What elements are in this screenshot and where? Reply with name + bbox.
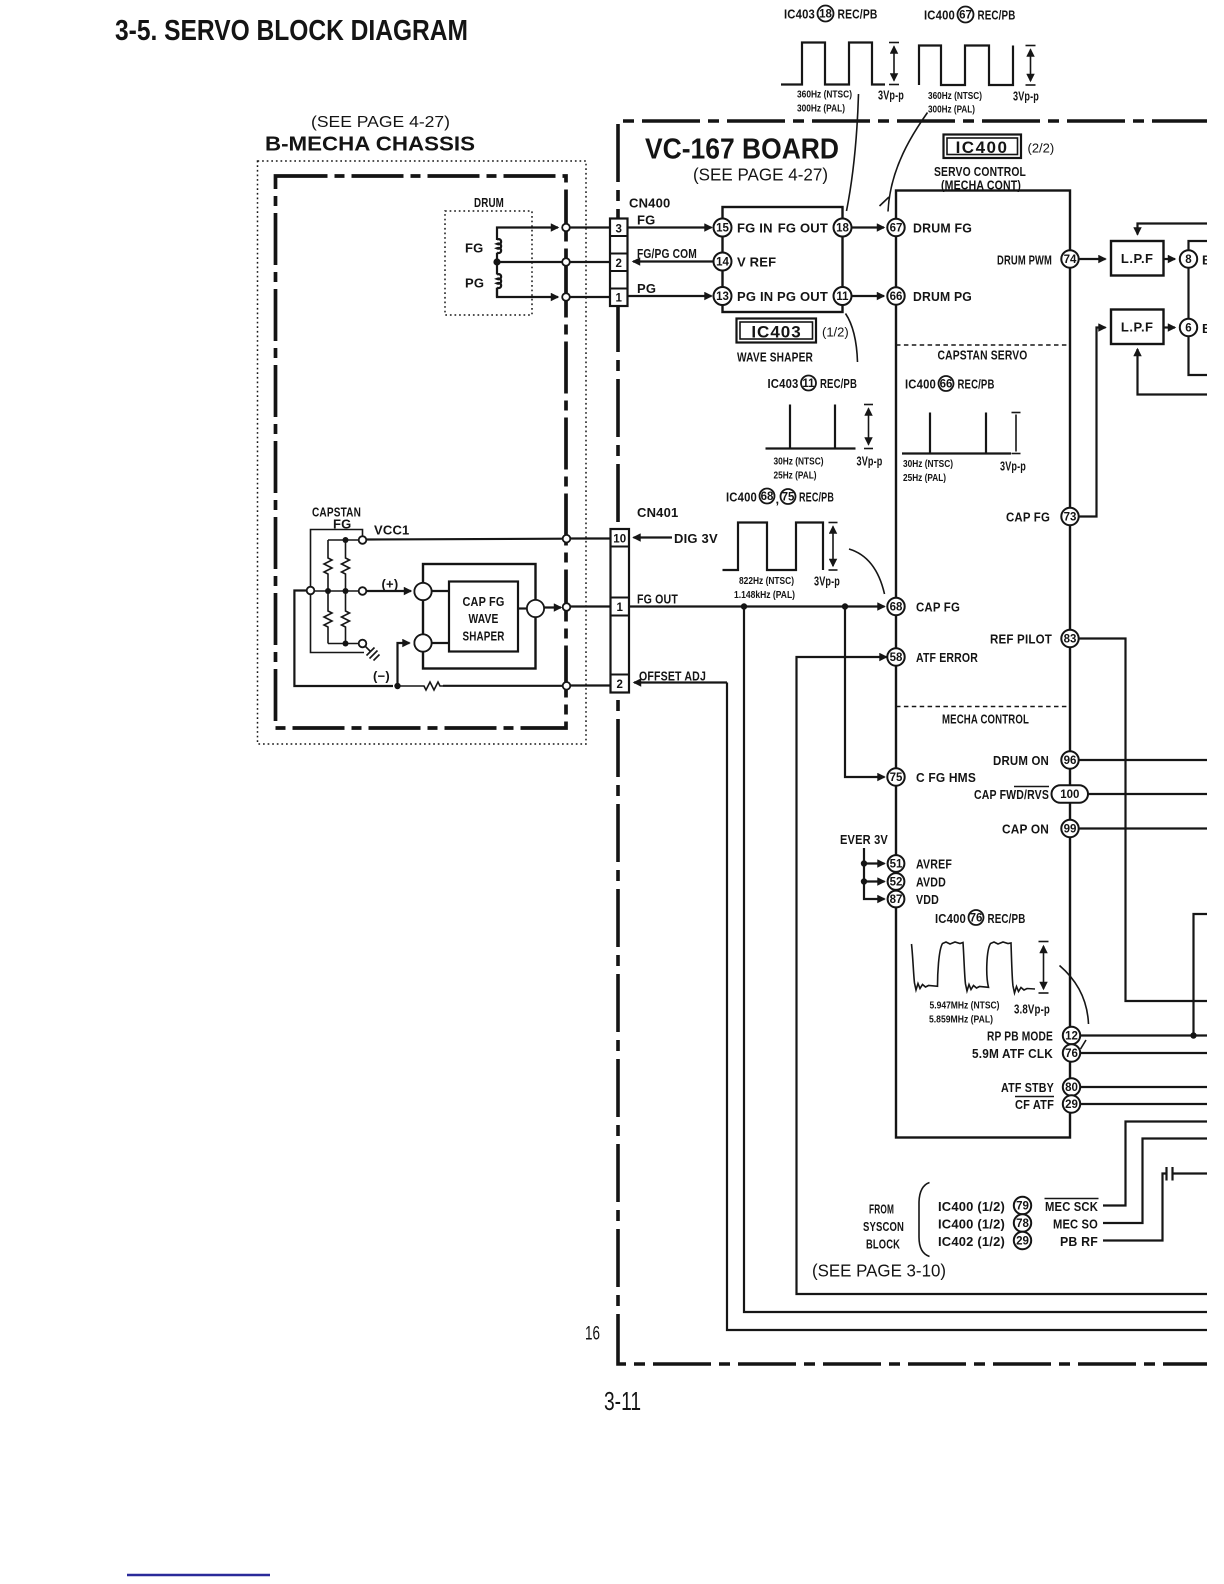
svg-text:FG: FG [637,213,655,228]
terminal capstan plus [359,587,367,595]
node circle 6 [1180,319,1197,336]
node bottom rail [328,643,359,645]
IC403 pin 11 [834,287,852,305]
node 79 [1014,1197,1031,1214]
svg-text:3Vp-p: 3Vp-p [814,574,840,589]
IC400 reference designator box [944,135,1022,159]
svg-text:99: 99 [1064,824,1077,836]
svg-text:14: 14 [716,257,729,269]
resistor R lower-left [324,591,332,644]
svg-text:EVER 3V: EVER 3V [840,832,888,847]
wire drum common to chassis terminal [497,261,562,263]
IC400 pin 58 [887,648,904,665]
svg-text:3.8Vp-p: 3.8Vp-p [1014,1002,1050,1017]
low pass filter LPF1 [1111,241,1164,276]
square waveform 360Hz at IC400 pin67 [919,46,1013,86]
svg-text:FG OUT: FG OUT [637,592,678,607]
junction dot minus node [394,683,400,689]
IC400 pin 74 [1061,250,1078,267]
svg-text:(2/2): (2/2) [1028,141,1055,156]
svg-text:CF ATF: CF ATF [1015,1097,1054,1112]
wire OFFSET ADJ into CN401 pin2 [634,681,727,683]
svg-text:VCC1: VCC1 [374,523,409,538]
IC403 pin 15 [714,219,732,237]
wire corner feed to pin12 bus [1194,914,1208,1036]
wire CAP ON pin99 exit [1079,827,1207,829]
wire EVER 3V rail [864,848,885,899]
IC400 pin 12 [1063,1027,1080,1044]
svg-text:3-5. SERVO BLOCK DIAGRAM: 3-5. SERVO BLOCK DIAGRAM [115,15,468,47]
leader tick at pin67 [880,197,890,206]
node 29 [1014,1232,1031,1249]
wire CAP FG pin73 to LPF2 [1079,328,1106,517]
svg-text:12: 12 [1065,1031,1078,1043]
MECHA CONTROL section separator [896,706,1070,708]
svg-text:IC400: IC400 [924,8,955,23]
svg-text:FG/PG COM: FG/PG COM [637,246,697,261]
leader curve waveform to pin12 [1060,966,1089,1025]
svg-text:CN400: CN400 [629,196,670,211]
B-MECHA chassis inner dash-dot border [276,176,567,728]
svg-text:75: 75 [890,772,903,784]
svg-text:BLOCK: BLOCK [866,1237,900,1252]
chassis terminal FG OUT [563,603,571,611]
svg-text:DIG 3V: DIG 3V [674,531,718,546]
wire MEC SO exit [1103,1139,1207,1224]
svg-text:DRUM PG: DRUM PG [913,289,972,304]
svg-text:25Hz (PAL): 25Hz (PAL) [903,472,946,484]
svg-text:80: 80 [1065,1082,1078,1094]
svg-text:WAVE: WAVE [469,611,499,626]
svg-text:1: 1 [616,602,623,614]
connector CN400 [610,219,628,307]
svg-text:FROM: FROM [869,1202,894,1217]
svg-text:68: 68 [890,602,903,614]
svg-text:13: 13 [716,291,729,303]
resistor R lower-right [342,591,350,644]
wire DRUM ON pin96 exit [1079,759,1207,761]
wire to pin51 [864,862,885,864]
svg-text:WAVE SHAPER: WAVE SHAPER [737,350,813,365]
wire shaper to output node [518,607,527,609]
wire summing1 to shaper [432,590,449,592]
pin label CF ATF with overline [1015,1097,1054,1113]
svg-text:FG OUT: FG OUT [778,221,828,236]
page scan crop margin [1207,0,1224,1584]
svg-text:PG: PG [465,276,484,291]
svg-text:29: 29 [1065,1099,1078,1111]
wire drum PG to chassis terminal [497,288,558,297]
svg-text:REC/PB: REC/PB [988,911,1026,926]
svg-text:75: 75 [782,492,795,504]
wire 5.9M ATF CLK pin76 exit [1081,1052,1208,1054]
wire terminal to CN401 pin10 [570,537,610,539]
IC400 pin 67 [887,219,904,236]
svg-text:73: 73 [1064,512,1077,524]
svg-text:C FG HMS: C FG HMS [916,770,976,785]
IC403 pin 14 [714,253,732,271]
wire LPF2 to node 6 [1164,326,1176,328]
3Vp-p measure arrow [889,43,899,85]
svg-text:30Hz (NTSC): 30Hz (NTSC) [774,456,824,468]
svg-text:CN401: CN401 [637,505,678,520]
svg-text:100: 100 [1060,789,1079,801]
svg-text:360Hz (NTSC): 360Hz (NTSC) [928,90,982,102]
svg-text:3-11: 3-11 [604,1386,641,1416]
svg-text:300Hz (PAL): 300Hz (PAL) [797,103,845,115]
drum assembly dotted box [445,211,532,315]
waveform label IC400 pin67 REC/PB [924,7,1016,23]
leader curve waveform to pin18 [847,94,859,211]
output node circle [527,600,544,617]
svg-text:16: 16 [585,1324,600,1345]
svg-text:DRUM PWM: DRUM PWM [997,253,1052,268]
svg-text:MEC SCK: MEC SCK [1045,1199,1098,1214]
junction dot EVER 3V b [861,878,867,884]
svg-text:76: 76 [970,913,983,925]
wire terminal to CN400 pin2 [570,261,610,263]
svg-text:VDD: VDD [916,892,939,907]
svg-text:REC/PB: REC/PB [958,377,995,392]
svg-text:2: 2 [616,679,622,691]
wire CN400 pin3 to IC403 pin15 [628,226,712,228]
svg-text:1.148kHz (PAL): 1.148kHz (PAL) [734,589,795,601]
wire CAP FWD/RVS pin100 exit [1088,793,1207,795]
svg-text:AVDD: AVDD [916,875,946,890]
svg-text:11: 11 [836,291,849,303]
svg-text:78: 78 [1016,1218,1029,1230]
svg-text:(SEE PAGE 3-10): (SEE PAGE 3-10) [812,1261,946,1281]
svg-text:PG: PG [637,281,656,296]
wire capacitor exit [1173,1172,1208,1174]
resistor R upper-left [324,540,332,591]
svg-text:2: 2 [615,258,621,270]
svg-text:822Hz (NTSC): 822Hz (NTSC) [739,575,794,587]
wire ATF ERROR from pin58 to bottom bus [797,657,1208,1294]
svg-text:52: 52 [890,877,903,889]
svg-text:5.859MHz (PAL): 5.859MHz (PAL) [929,1014,993,1026]
spike waveform 30Hz at IC403 pin11 [766,405,856,449]
IC400 pin 100 [1052,785,1089,803]
IC400 pin 73 [1061,508,1078,525]
wire FG OUT branch to pin75 [845,607,885,778]
svg-text:OFFSET ADJ: OFFSET ADJ [639,669,706,684]
svg-text:,: , [776,492,780,507]
terminal VCC1 [359,536,367,544]
svg-text:1: 1 [615,293,622,305]
svg-text:(−): (−) [373,669,390,684]
svg-text:(SEE PAGE 4-27): (SEE PAGE 4-27) [693,165,828,185]
IC403 pin 18 [834,219,852,237]
node 78 [1014,1214,1031,1231]
node circle 8 [1180,250,1197,267]
svg-text:18: 18 [836,223,849,235]
B-MECHA chassis outer dotted border [258,161,587,744]
svg-text:REC/PB: REC/PB [820,376,857,391]
svg-text:SYSCON: SYSCON [863,1219,904,1234]
svg-text:PG OUT: PG OUT [777,289,828,304]
svg-text:DRUM: DRUM [474,195,504,210]
wire OFFSET ADJ down to bottom bus [727,683,1207,1331]
junction dot pin12 bus [1190,1032,1196,1038]
wire terminal to CN400 pin3 [570,226,610,228]
svg-text:B-MECHA CHASSIS: B-MECHA CHASSIS [265,134,475,156]
svg-text:V REF: V REF [737,255,776,270]
svg-text:CAP FG: CAP FG [1006,510,1050,525]
svg-text:MECHA CONTROL: MECHA CONTROL [942,712,1029,727]
svg-text:IC402 (1/2): IC402 (1/2) [938,1234,1005,1249]
svg-text:58: 58 [890,652,903,664]
svg-text:L.P.F: L.P.F [1121,251,1154,266]
brace [919,1183,930,1257]
wire drum FG to chassis terminal [497,228,558,241]
wire output to CN401 pin1 [544,606,561,608]
wire FG OUT down to bottom bus [744,607,1207,1313]
wire CF ATF pin29 exit [1081,1103,1208,1105]
svg-text:68: 68 [761,491,774,503]
wire feedback into LPF2 bottom [1138,349,1208,395]
node VCC1 top rail [328,539,359,541]
svg-text:76: 76 [1065,1048,1078,1060]
svg-text:ATF ERROR: ATF ERROR [916,650,978,665]
IC403 pin 13 [714,287,732,305]
wire IC403 pin14 to CN400 pin2 [633,260,714,262]
svg-text:51: 51 [890,859,903,871]
svg-text:IC403: IC403 [768,376,799,391]
svg-text:67: 67 [890,223,903,235]
wire IC403 pin11 to IC400 pin66 [852,295,885,297]
wire IC403 pin18 to IC400 pin67 [852,226,885,228]
svg-text:IC400: IC400 [956,138,1009,157]
capstan FG sensor box [311,530,365,653]
IC400 pin 87 [888,891,905,908]
IC400 pin 51 [888,855,905,872]
svg-text:5.947MHz (NTSC): 5.947MHz (NTSC) [930,1000,1000,1012]
wire MEC SCK exit [1103,1122,1207,1206]
RF envelope waveform 5.9MHz [912,942,1036,993]
IC400 pin 52 [888,873,905,890]
svg-text:30Hz (NTSC): 30Hz (NTSC) [903,458,953,470]
svg-text:IC400 (1/2): IC400 (1/2) [938,1217,1005,1232]
IC400 pin 66 [887,287,904,304]
svg-text:10: 10 [613,534,626,546]
terminal ground side [359,640,367,648]
chassis terminal OFFSET [563,682,571,690]
square waveform 822Hz CAP FG [723,523,824,571]
junction dots middle rail [325,588,349,594]
svg-text:CAP ON: CAP ON [1002,822,1049,837]
svg-text:CAP FG: CAP FG [916,600,960,615]
chassis terminal FG/PG COM [562,258,570,266]
wire terminal to CN401 pin1 [570,605,610,607]
svg-text:18: 18 [819,9,832,21]
svg-text:FG IN: FG IN [737,221,773,236]
leader tick at pin76 [1081,1040,1087,1049]
redraw summing circles over box edge [414,583,431,652]
wire ATF STBY pin80 exit [1081,1086,1208,1088]
wire minus node to summing2 [398,643,410,686]
svg-text:IC403: IC403 [784,7,815,22]
square waveform 360Hz at IC403 pin18 [781,43,885,85]
svg-text:CAPSTAN SERVO: CAPSTAN SERVO [938,348,1028,363]
wire minus feedback loop [294,591,393,687]
svg-text:IC400: IC400 [935,911,966,926]
net label MEC SCK with overline [1045,1199,1099,1215]
wire CN400 pin1 to IC403 pin13 [628,295,712,297]
svg-text:25Hz (PAL): 25Hz (PAL) [774,470,817,482]
svg-text:PG IN: PG IN [737,289,773,304]
CAP FG WAVE SHAPER block [449,582,518,652]
svg-text:CAP FG: CAP FG [463,594,505,609]
leader curve waveform to pin68 [849,549,885,594]
wire top feed into LPF1 [1138,224,1208,235]
svg-text:AVREF: AVREF [916,857,952,872]
summing node circle 1 [414,583,431,600]
svg-text:8: 8 [1185,254,1192,266]
svg-text:67: 67 [959,10,972,22]
3Vp-p measure arrow [1026,46,1036,86]
wire pin74 to LPF1 [1079,258,1106,260]
wire PB RF to capacitor [1103,1174,1166,1241]
wire terminal to CN401 pin2 [570,684,610,686]
svg-text:15: 15 [716,223,729,235]
svg-text:DRUM ON: DRUM ON [993,753,1049,768]
svg-text:REC/PB: REC/PB [799,490,834,505]
junction dot bottom rail [343,641,349,647]
resistor R upper-right [342,540,350,591]
3.8Vp-p measure arrow [1039,942,1049,994]
low pass filter LPF2 [1111,310,1164,345]
wire RP PB MODE pin12 exit [1081,1034,1208,1036]
junction drum FG/PG common [493,258,500,265]
svg-text:29: 29 [1016,1236,1029,1248]
wire node8 up to edge [1189,241,1208,250]
waveform label IC400 pins68,75 REC/PB [726,489,834,507]
IC400 pin 80 [1063,1078,1080,1095]
svg-text:IC400: IC400 [905,377,936,392]
terminal capstan left [307,587,315,595]
3Vp-p measure arrow [864,405,873,449]
IC403 reference designator box [737,319,817,343]
junction dot EVER 3V a [861,860,867,866]
svg-text:(SEE PAGE 4-27): (SEE PAGE 4-27) [311,114,450,131]
IC400 pin 68 [887,598,904,615]
svg-text:CAP FWD/RVS: CAP FWD/RVS [974,787,1049,802]
3Vp-p measure arrow [1012,413,1021,454]
svg-text:SHAPER: SHAPER [463,629,505,644]
waveform label IC400 pin66 REC/PB [905,376,995,392]
IC400 pin 96 [1061,751,1078,768]
ground [365,646,379,660]
svg-text:VC-167 BOARD: VC-167 BOARD [645,134,839,166]
svg-text:3Vp-p: 3Vp-p [1000,459,1026,474]
wire terminal to CN400 pin1 [570,296,610,298]
svg-text:IC400 (1/2): IC400 (1/2) [938,1199,1005,1214]
DIG 3V label and wire [634,531,718,546]
chassis terminal PG [562,293,570,301]
wire plus to summing point [366,590,411,592]
svg-text:REC/PB: REC/PB [838,7,878,22]
wire REF PILOT pin83 exit [1079,639,1207,1002]
leader curve waveform to pin67 [888,113,928,212]
3Vp-p measure arrow [829,523,838,571]
feedback loop box around wave shaper [423,564,536,669]
IC400 pin 75 [887,768,904,785]
wire VCC1 to CN401 pin10 [366,538,562,541]
svg-text:FG: FG [465,241,483,256]
CAPSTAN FG label [312,505,361,532]
wire node8 to node6 [1187,268,1189,319]
svg-text:IC400: IC400 [726,490,757,505]
IC400 pin 83 [1061,630,1078,647]
op-amp block IC403 wave shaper [723,207,843,312]
spike waveform 30Hz at IC400 pin66 [902,413,1011,454]
svg-text:83: 83 [1064,634,1077,646]
chassis terminal VCC1 [563,535,571,543]
wire summing2 to shaper [432,642,449,644]
VC-167 board dash-dot border [618,121,1210,1364]
IC400 block outline [896,191,1070,1138]
svg-text:11: 11 [802,378,815,390]
svg-text:MEC SO: MEC SO [1053,1217,1098,1232]
blue footer underline [127,1574,270,1576]
IC400 pin 29 [1063,1095,1080,1112]
junction dot FG OUT a [741,603,747,609]
svg-text:3Vp-p: 3Vp-p [857,454,883,469]
svg-text:(+): (+) [382,577,399,592]
svg-text:3: 3 [615,224,621,236]
svg-text:PB RF: PB RF [1060,1234,1098,1249]
wire LPF1 to node 8 [1164,258,1176,260]
svg-text:5.9M ATF CLK: 5.9M ATF CLK [972,1046,1053,1061]
svg-text:300Hz (PAL): 300Hz (PAL) [928,104,975,116]
wire to pin52 [864,880,885,882]
svg-text:3Vp-p: 3Vp-p [878,88,904,103]
leader curve pin11 to waveform label [846,314,858,363]
wire CN401 pin1 FG OUT to IC400 pin68 [629,605,885,607]
drum FG head coil [497,239,501,262]
wire node6 down to edge [1189,336,1208,375]
svg-text:(1/2): (1/2) [822,325,849,340]
svg-text:87: 87 [890,894,903,906]
svg-text:IC403: IC403 [751,323,801,342]
summing node circle 2 [414,634,431,651]
IC400 pin 76 [1063,1044,1080,1061]
wire offset resistor to chassis terminal [443,685,563,687]
pin label CAP FWD/RVS with overline on RVS [974,787,1049,803]
svg-text:79: 79 [1016,1201,1029,1213]
IC400 pin 99 [1061,820,1078,837]
connector CN401 [611,529,630,693]
junction dot top rail [343,537,349,543]
svg-text:74: 74 [1064,254,1077,266]
drum PG head coil [497,262,501,297]
svg-text:6: 6 [1185,323,1191,335]
svg-text:RP PB MODE: RP PB MODE [987,1029,1053,1044]
svg-text:96: 96 [1064,755,1077,767]
chassis terminal FG [562,224,570,232]
FROM SYSCON BLOCK caption [863,1202,904,1252]
svg-text:ATF STBY: ATF STBY [1001,1080,1054,1095]
waveform label IC400 pin76 REC/PB [935,910,1026,926]
capacitor C [1167,1167,1173,1181]
svg-text:66: 66 [890,291,903,303]
svg-text:DRUM FG: DRUM FG [913,221,972,236]
svg-text:66: 66 [940,379,953,391]
waveform label IC403 pin18 REC/PB [784,6,878,22]
svg-text:L.P.F: L.P.F [1121,320,1154,335]
resistor in offset line [398,682,444,690]
